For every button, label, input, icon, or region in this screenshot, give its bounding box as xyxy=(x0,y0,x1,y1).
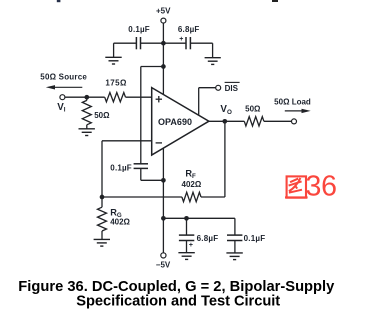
svg-text:50Ω Source: 50Ω Source xyxy=(40,73,87,82)
node VO output junction xyxy=(220,104,232,123)
ground (input 50 ohm) xyxy=(79,125,95,136)
svg-text:+: + xyxy=(189,242,193,249)
svg-text:−5V: −5V xyxy=(156,260,171,269)
wire to non-inverting input xyxy=(126,96,152,98)
svg-text:6.8µF: 6.8µF xyxy=(197,234,219,243)
wire inverting input xyxy=(102,141,152,197)
node VI input terminal xyxy=(57,95,66,114)
wire +5V terminal to rail xyxy=(162,23,164,43)
node +5V supply terminal xyxy=(156,6,171,23)
decor remnant marks xyxy=(57,0,61,2)
svg-text:0.1µF: 0.1µF xyxy=(244,234,266,243)
ground (bottom 0.1uF) xyxy=(226,253,242,260)
50 ohm source label and arrow xyxy=(40,73,87,90)
junction 6.8uF tap xyxy=(184,216,189,221)
svg-text:0.1µF: 0.1µF xyxy=(110,163,132,172)
svg-text:402Ω: 402Ω xyxy=(110,218,130,227)
ground (bottom 6.8uF) xyxy=(178,253,194,260)
svg-text:402Ω: 402Ω xyxy=(182,180,202,189)
wire feedback from output xyxy=(201,121,225,197)
svg-text:0.1µF: 0.1µF xyxy=(128,25,150,34)
capacitor 6.8uF polarized (bottom) xyxy=(179,234,218,253)
junction supply branch xyxy=(161,64,166,69)
red annotation glyph TU (figure) xyxy=(285,176,308,197)
wire bypass cap to -5V line xyxy=(141,168,164,180)
wire supply branch to bypass cap xyxy=(141,67,164,164)
wire op-amp V- pin down to -5V xyxy=(162,148,164,253)
junction input/50 ohm xyxy=(84,95,89,100)
svg-text:+: + xyxy=(179,36,183,43)
svg-text:175Ω: 175Ω xyxy=(105,78,127,87)
node DIS pin xyxy=(199,82,240,115)
ground (top right) xyxy=(205,58,221,65)
svg-text:50Ω Load: 50Ω Load xyxy=(274,97,311,106)
node 50 ohm load terminal xyxy=(274,97,311,124)
svg-text:Figure 36. DC-Coupled, G = 2,: Figure 36. DC-Coupled, G = 2, Bipolar-Su… xyxy=(18,279,335,295)
capacitor 0.1uF (bottom) xyxy=(227,234,265,253)
wire bottom decoupling rail xyxy=(163,218,235,235)
svg-text:50Ω: 50Ω xyxy=(94,111,110,120)
resistor 175 ohm xyxy=(105,78,127,102)
node -5V supply terminal xyxy=(156,253,171,270)
ground (top left) xyxy=(105,57,121,64)
capacitor 0.1uF (top left decoupling) xyxy=(128,25,150,50)
capacitor 0.1uF supply bypass xyxy=(110,163,148,172)
wire inverting node xyxy=(102,196,182,198)
resistor 50 ohm output xyxy=(244,104,264,126)
junction inverting node xyxy=(100,195,105,200)
svg-text:Specification and Test Circuit: Specification and Test Circuit xyxy=(76,294,280,310)
junction -5V rail xyxy=(161,216,166,221)
svg-text:DIS: DIS xyxy=(225,84,239,93)
wire +5V rail down to op-amp V+ pin xyxy=(162,43,164,94)
wire top decoupling rail xyxy=(114,43,213,58)
resistor RF 402 ohm xyxy=(182,169,202,202)
svg-text:OPA690: OPA690 xyxy=(158,117,192,127)
junction bypass/-5V line xyxy=(161,178,166,183)
wire input xyxy=(65,96,105,98)
resistor 50 ohm shunt xyxy=(82,97,110,125)
wire op-amp output xyxy=(209,120,244,122)
wire to load terminal xyxy=(264,120,291,122)
svg-text:6.8µF: 6.8µF xyxy=(178,25,200,34)
ground (RG) xyxy=(94,239,110,246)
svg-text:+5V: +5V xyxy=(156,6,171,15)
resistor RG 402 ohm xyxy=(98,197,131,239)
svg-text:50Ω: 50Ω xyxy=(245,104,261,113)
junction rail/+5V xyxy=(161,41,166,46)
svg-text:36: 36 xyxy=(306,170,338,202)
capacitor C 6.8uF polarized (top) xyxy=(178,25,200,49)
op-amp U1 OPA690 xyxy=(152,88,209,155)
